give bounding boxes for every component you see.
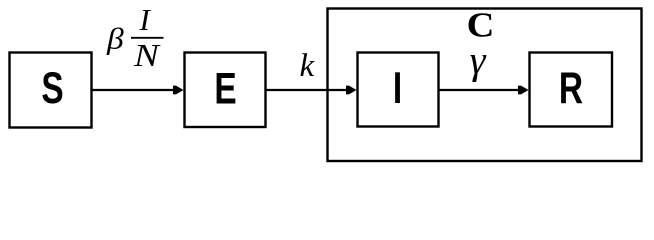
svg-text:γ: γ <box>470 37 487 82</box>
svg-text:β: β <box>106 22 124 55</box>
svg-text:N: N <box>133 38 161 73</box>
arrow S to E <box>92 86 184 95</box>
label R <box>559 63 583 113</box>
label I <box>393 63 402 113</box>
box I <box>358 53 439 127</box>
label S <box>41 63 63 113</box>
svg-text:S: S <box>41 63 63 113</box>
box C (compartment frame) <box>328 9 642 162</box>
label beta I/N <box>106 2 164 73</box>
arrow I to R <box>439 86 529 95</box>
arrow E to I <box>266 86 357 95</box>
svg-text:E: E <box>214 64 236 114</box>
svg-text:R: R <box>559 63 583 113</box>
svg-text:I: I <box>139 2 152 37</box>
box R <box>530 53 613 127</box>
svg-text:k: k <box>300 48 316 84</box>
label C <box>467 5 495 44</box>
box S <box>10 53 92 128</box>
box E <box>185 53 266 128</box>
label E <box>214 64 236 114</box>
svg-text:I: I <box>393 63 402 113</box>
